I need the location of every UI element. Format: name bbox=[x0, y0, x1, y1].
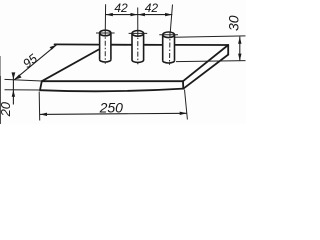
pin 2 right side bbox=[143, 33, 145, 60]
arrowheads 42 left span bbox=[106, 13, 173, 16]
pin 3 top ellipse bbox=[163, 32, 175, 38]
dimension line 20 bbox=[12, 73, 14, 105]
pin 1 left side bbox=[99, 33, 101, 60]
plate back right vertical edge bbox=[227, 45, 229, 55]
svg-text:250: 250 bbox=[99, 99, 124, 115]
pin 3 right side bbox=[174, 35, 176, 61]
dimension line 30 bbox=[239, 37, 241, 61]
pin 3 cylinder bbox=[163, 32, 175, 63]
pin 1 top ellipse bbox=[100, 30, 111, 36]
dimension 30 bottom extension line bbox=[176, 61, 246, 62]
plate back top edge segment right of pin 3 bbox=[176, 44, 229, 46]
dimension 42 extension line over pin 2 bbox=[137, 8, 139, 31]
dimension 250 right extension line bbox=[185, 90, 188, 120]
pin 1 centerlines bbox=[96, 30, 115, 64]
pin 1 bottom arc bbox=[100, 60, 111, 62]
plate top face left diagonal edge bbox=[42, 50, 99, 82]
svg-text:30: 30 bbox=[225, 15, 241, 31]
svg-text:20: 20 bbox=[0, 101, 13, 117]
dimension line 42 + 42 bbox=[106, 14, 173, 16]
pin 2 cylinder bbox=[132, 31, 144, 63]
plate back top edge segment between pin 2 and pin 3 bbox=[145, 44, 162, 46]
pin 2 left side bbox=[131, 33, 133, 60]
arrowhead 95 upper bbox=[50, 45, 57, 50]
svg-text:42: 42 bbox=[145, 1, 159, 15]
dimension 20 top extension line bbox=[5, 79, 42, 81]
plate front top edge bbox=[42, 80, 183, 82]
plate left vertical edge bbox=[40, 81, 42, 90]
dimension 250 left extension line bbox=[38, 92, 41, 121]
dimension 42 extension line over pin 3 bbox=[170, 5, 172, 32]
pin 2 centerlines bbox=[129, 31, 148, 65]
dimension 30 top extension line bbox=[175, 36, 246, 37]
pin 1 cylinder bbox=[100, 30, 111, 62]
dimension line 250 bbox=[40, 113, 187, 114]
arrowhead 95 lower bbox=[14, 74, 22, 80]
plate front bottom edge bbox=[40, 89, 183, 92]
pin 2 top ellipse bbox=[132, 31, 144, 37]
arrowhead 250 right bbox=[180, 112, 187, 115]
pin 3 bottom arc bbox=[163, 61, 175, 63]
plate bottom right diagonal edge bbox=[183, 55, 228, 89]
plate back top edge segment between pin 1 and pin 2 bbox=[112, 44, 132, 46]
dimension line 95 bbox=[14, 45, 57, 80]
arrowhead 30 up bbox=[238, 37, 241, 44]
pin 3 left side bbox=[162, 35, 164, 61]
arrowhead 20 down (above top ext line) bbox=[12, 72, 16, 79]
pin 1 right side bbox=[110, 33, 112, 60]
plate top face right diagonal edge bbox=[183, 45, 228, 81]
dimension 20 bottom extension line bbox=[5, 89, 41, 91]
arrowhead 20 up (below bottom ext line) bbox=[12, 90, 15, 97]
plate right vertical edge bbox=[182, 81, 184, 89]
pin 2 bottom arc bbox=[132, 60, 144, 62]
dimension 42 extension line over pin 1 bbox=[104, 4, 106, 30]
svg-text:42: 42 bbox=[114, 1, 128, 15]
arrowhead 250 left bbox=[40, 113, 47, 116]
pin 3 centerlines bbox=[159, 32, 178, 65]
svg-text:95: 95 bbox=[20, 51, 40, 71]
plate back top edge segment left of pin 1 bbox=[55, 43, 99, 45]
arrowhead 30 down bbox=[238, 54, 241, 61]
arrowheads 42 right span bbox=[138, 13, 145, 16]
scan edge artifact left border bbox=[0, 56, 2, 124]
